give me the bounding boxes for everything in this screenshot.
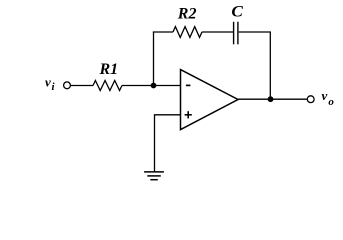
wire op-amp output	[238, 98, 307, 100]
terminal input circle	[64, 82, 71, 89]
svg-text:R1: R1	[99, 61, 119, 78]
svg-text:vi: vi	[45, 75, 56, 93]
ground	[144, 172, 164, 180]
svg-text:R2: R2	[177, 6, 197, 23]
resistor R2	[173, 27, 202, 38]
wire capacitor to right corner	[239, 31, 271, 33]
svg-text:vo: vo	[322, 88, 335, 108]
node A junction dot at inverting input	[151, 83, 157, 89]
wire R2 to capacitor	[202, 31, 233, 33]
terminal output circle	[307, 96, 314, 103]
wire feedback top left to R2	[153, 31, 173, 33]
resistor R1	[93, 81, 122, 91]
wire input to R1	[71, 85, 93, 87]
capacitor C	[234, 22, 238, 45]
wire non-inverting input to ground	[155, 115, 181, 172]
node B junction dot at output	[268, 96, 274, 102]
wire R1 to op-amp inverting input	[122, 85, 181, 87]
wire feedback left vertical	[153, 32, 155, 86]
svg-text:C: C	[231, 3, 243, 20]
op-amp U1	[181, 70, 239, 130]
non-inverting input plus sign	[185, 111, 192, 118]
wire feedback right vertical	[269, 32, 271, 100]
inverting input minus sign	[186, 84, 191, 86]
